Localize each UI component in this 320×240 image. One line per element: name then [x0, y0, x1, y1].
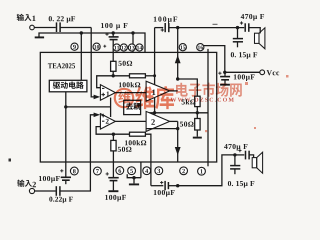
plus bootstrap ch2	[160, 181, 163, 184]
capacitor 0.15uF ch1	[237, 28, 239, 38]
op-amp A2	[100, 114, 115, 130]
feedback wire amp1	[97, 76, 130, 88]
label 100uF Vcc	[234, 74, 237, 79]
wire to speaker2	[249, 155, 254, 158]
pin 6	[116, 167, 124, 175]
capacitor 470uF ch1	[244, 23, 246, 32]
junction fb1/bootstrap	[153, 74, 156, 77]
decouple box 去耦	[124, 100, 141, 114]
label 0.15uF ch1	[231, 52, 234, 57]
pin 9	[71, 43, 78, 50]
label 0.22uF top	[49, 16, 52, 21]
pin 4	[143, 167, 151, 175]
speaker SP2	[252, 152, 262, 173]
terminal Vcc	[260, 70, 265, 75]
wire 50ohm ch2 to pin6	[112, 151, 114, 162]
wire pin8 vertical	[65, 92, 67, 162]
capacitor 470uF ch2	[245, 151, 247, 160]
junction rail/pin13	[131, 31, 134, 34]
wire pin4 down	[140, 162, 142, 178]
Vcc wire	[225, 71, 260, 73]
op-amp A1	[100, 85, 115, 101]
arrow down pin2	[175, 147, 181, 155]
label 50ohm ch2	[118, 147, 121, 152]
junction fb1/50ohm	[112, 74, 115, 77]
resistor 100k ch2	[130, 132, 146, 136]
mid rail ch2	[146, 128, 178, 130]
ground bar pin6	[108, 190, 118, 192]
junction pin2/bootstrap	[176, 184, 179, 187]
junction out2/zobel2	[233, 153, 236, 156]
plus pin8 cap	[60, 169, 63, 172]
wire pin3 down	[150, 162, 152, 186]
output stage 1 triangle	[146, 81, 170, 101]
plus near pin10	[103, 45, 106, 48]
ground bar Vcc cap	[220, 84, 230, 86]
capacitor 0.15uF ch2	[234, 155, 236, 165]
label 50ohm right	[180, 122, 183, 127]
bias line to amps	[66, 106, 111, 108]
resistor 50ohm ch1	[111, 61, 116, 71]
label TEA2025	[48, 63, 52, 68]
pin 7	[94, 167, 102, 175]
ground rail top	[39, 33, 145, 52]
label 0.15uF ch2	[228, 181, 231, 186]
input terminal IN2	[29, 188, 34, 193]
wire bootstrap top	[155, 27, 164, 29]
label 470uF ch1	[241, 14, 245, 19]
resistor 50ohm right	[195, 119, 200, 131]
speaker SP1	[255, 28, 265, 49]
wire out stage1 apex	[170, 90, 178, 92]
capacitor 0.22uF ch2	[55, 186, 57, 196]
label 100uF bootstrap ch1	[154, 17, 157, 22]
pin 2	[180, 167, 188, 175]
junction pin5 gnd	[132, 176, 135, 179]
plus bootstrap cap ch1	[161, 28, 164, 31]
pin 10	[93, 43, 100, 50]
pin 13	[128, 44, 135, 51]
pin 11	[113, 44, 120, 51]
wire out2 wrap to speaker2	[178, 155, 235, 186]
junction out2 node	[176, 127, 179, 130]
wire C2 to R 50ohm	[112, 40, 114, 62]
red specks	[205, 75, 289, 132]
wire fb2 to 50ohm ch2	[112, 134, 114, 140]
wire stage2 out	[170, 120, 178, 122]
wire pin6 to cap	[112, 162, 114, 177]
wire out1 to 470uF	[169, 27, 244, 29]
capacitor 100uF pin6	[108, 177, 118, 179]
wire pin15 output1	[177, 28, 179, 79]
input terminal IN1	[30, 25, 35, 30]
wire C1 to pin10 drop	[60, 27, 91, 29]
ground symbol top-left	[35, 36, 44, 38]
wire 5k to node	[196, 107, 198, 113]
arrow up pin15	[175, 55, 181, 63]
bias vertical amp1-amp2	[110, 98, 112, 117]
wire node to 50ohm right	[196, 113, 198, 119]
wire R to fb1 rail	[112, 71, 114, 76]
resistor 50ohm ch2	[111, 140, 116, 151]
wire pin13 stub	[132, 33, 134, 52]
watermark	[115, 83, 242, 110]
internal rail pin16-pin1	[207, 49, 209, 166]
wire pin16 to Vcc	[204, 46, 225, 73]
label 100uF pin8	[39, 176, 42, 181]
label 470uF ch2	[224, 144, 228, 149]
label 0.22uF bottom	[49, 197, 52, 202]
wire pin5 stub	[127, 174, 141, 178]
resistor 100k ch1	[130, 74, 146, 78]
junction rail/pin9	[80, 31, 83, 34]
output stage 2 triangle	[146, 111, 170, 131]
label 5k	[182, 100, 185, 105]
wire in2	[35, 190, 56, 192]
resistor 5k	[195, 96, 200, 106]
pin 14	[136, 44, 143, 51]
junction 5k/50ohm	[196, 111, 199, 114]
wire out2 to pin2	[177, 121, 179, 162]
wire 100k to bootstrap	[145, 75, 154, 77]
wire input2 up to amp2	[60, 115, 94, 191]
wire amp2 to stage2	[115, 120, 146, 122]
junction fb2/50ohm	[112, 133, 115, 136]
junction out1 node	[176, 77, 179, 80]
plus C2	[105, 33, 108, 36]
label 输入1	[17, 14, 24, 21]
label 输入2	[17, 180, 24, 187]
capacitor 100uF pin8	[61, 176, 71, 178]
wire pin3 to cap	[151, 185, 163, 187]
ground bar pin5	[129, 183, 139, 185]
wire to 5k	[178, 79, 198, 96]
capacitor 100uF Vcc	[224, 72, 226, 76]
label 100uF pin11	[101, 23, 104, 28]
wire input1 down to amp1	[91, 28, 94, 97]
plus 470uF ch2	[238, 149, 241, 152]
pin 12	[120, 44, 127, 51]
wire in1 to C1	[34, 27, 56, 29]
wire 50ohm to gnd	[196, 130, 198, 137]
junction out1/pin15	[176, 26, 179, 29]
label 100k ch1	[119, 82, 122, 87]
IC box TEA2025 outline	[40, 52, 216, 162]
capacitor C1 0.22uF	[56, 22, 58, 32]
plus Vcc cap	[218, 72, 221, 75]
label 50ohm ch1	[119, 61, 122, 66]
arrow into amp2 +	[94, 113, 101, 118]
pin 1	[198, 167, 206, 175]
pin 16	[197, 44, 204, 51]
wire 470uF to speaker1	[249, 28, 260, 34]
plus 470uF ch1	[240, 21, 243, 24]
pin 8	[70, 167, 78, 175]
junction Vcc	[223, 71, 226, 74]
junction out1/zobel	[236, 26, 239, 29]
wire fb2 to pin3	[145, 134, 151, 162]
label 100k ch2	[125, 140, 128, 145]
stray dash mark	[213, 23, 218, 25]
pin 3	[155, 167, 163, 175]
feedback wire amp2	[96, 127, 129, 135]
label 100uF bootstrap ch2	[154, 190, 157, 195]
pin 15	[179, 44, 186, 51]
wire pin8 to cap	[65, 162, 67, 177]
junction bias	[64, 105, 67, 108]
capacitor 100uF bootstrap ch1	[164, 23, 166, 32]
ground bar right	[193, 137, 202, 139]
label 100uF pin6	[105, 195, 108, 200]
wire amp1 to stage1	[115, 92, 146, 94]
plus pin6 cap	[106, 172, 109, 175]
capacitor C2 100uF pin11	[109, 36, 119, 38]
mid rail	[146, 112, 208, 114]
arrow into amp1 +	[94, 95, 101, 100]
label Vcc	[267, 70, 272, 75]
wire pin9 to drive block	[80, 33, 82, 80]
junction rail/C2	[112, 31, 115, 34]
junction bootstrap/mid rail	[153, 111, 156, 114]
bootstrap vertical ch1	[154, 28, 156, 113]
capacitor 100uF bootstrap ch2	[164, 181, 166, 190]
drive circuit box	[49, 80, 87, 92]
pin 5	[128, 167, 136, 175]
